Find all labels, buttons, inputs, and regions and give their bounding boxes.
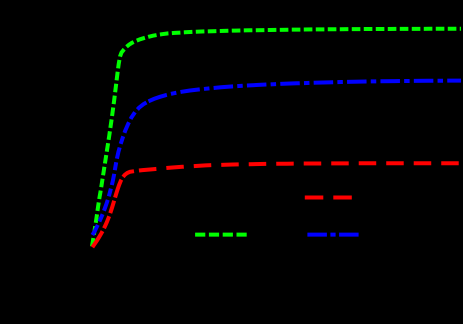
curve blue dash-dot (plateau segment): [149, 81, 462, 102]
curve red dashed (plateau segment): [134, 163, 461, 171]
curve green dotted: [92, 29, 461, 247]
legend sample red dashed: [305, 196, 353, 200]
legend sample green dotted: [195, 233, 249, 237]
legend sample blue dash-dot: [307, 233, 361, 237]
curve blue dash-dot (steep rise segment): [92, 101, 148, 235]
curve red dashed (steep rise segment): [92, 171, 134, 247]
